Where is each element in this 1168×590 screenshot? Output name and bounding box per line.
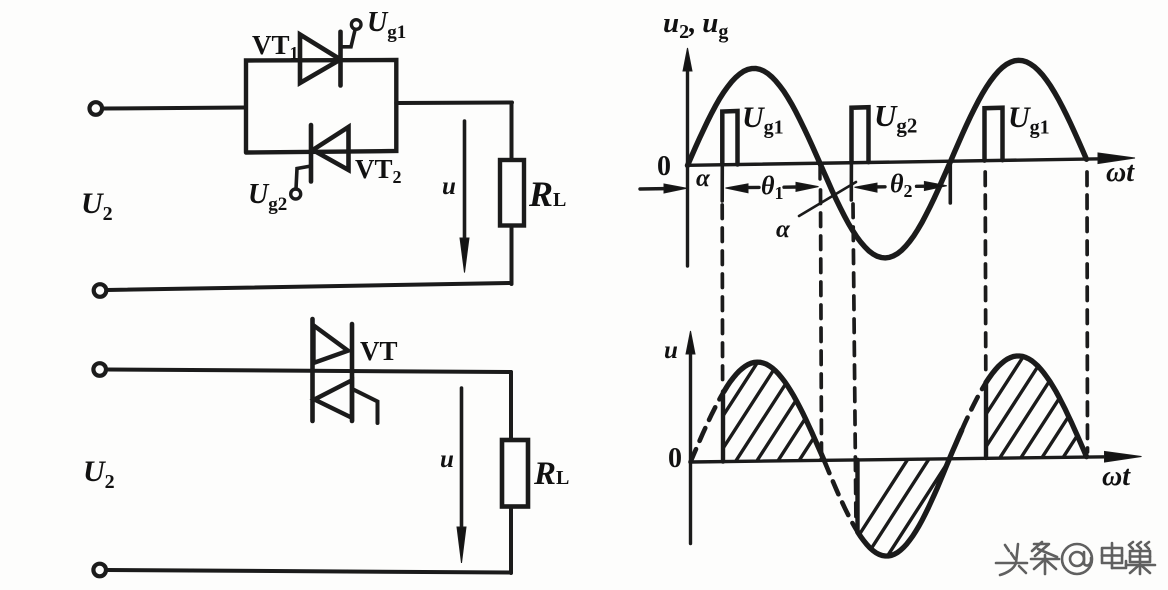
svg-text:u: u [442,173,456,200]
svg-text:Ug1: Ug1 [1008,101,1050,139]
svg-text:α: α [696,165,711,192]
svg-text:u: u [664,337,678,364]
svg-text:Ug2: Ug2 [248,179,287,215]
svg-text:u: u [440,446,454,473]
svg-text:0: 0 [668,443,682,474]
svg-text:ωt: ωt [1102,461,1131,492]
svg-text:U2: U2 [81,187,113,225]
svg-text:0: 0 [657,151,671,182]
svg-text:θ1: θ1 [761,171,784,203]
svg-text:RL: RL [533,456,569,492]
svg-text:Ug2: Ug2 [874,98,917,138]
svg-text:RL: RL [528,174,566,214]
svg-text:VT: VT [360,336,398,366]
svg-text:θ2: θ2 [890,169,913,201]
svg-text:VT1: VT1 [252,30,299,63]
svg-text:u2, ug: u2, ug [663,7,728,43]
svg-text:Ug1: Ug1 [742,101,784,139]
svg-text:α: α [776,216,791,243]
svg-text:VT2: VT2 [355,154,402,187]
svg-text:ωt: ωt [1106,157,1135,188]
svg-text:U2: U2 [83,455,115,493]
svg-text:Ug1: Ug1 [367,7,406,43]
